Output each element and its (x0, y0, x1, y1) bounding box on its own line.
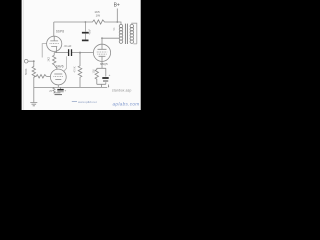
svg-text:.01uF: .01uF (63, 44, 71, 48)
svg-text:+: + (109, 73, 111, 77)
svg-text:5K: 5K (113, 27, 116, 30)
svg-text:40uF: 40uF (88, 28, 91, 34)
svg-text:470K: 470K (73, 66, 77, 72)
svg-text:6AV6: 6AV6 (56, 64, 64, 68)
svg-text:6BQ5: 6BQ5 (100, 62, 108, 66)
svg-text:stanbox.asp: stanbox.asp (112, 88, 131, 92)
svg-text:500K: 500K (24, 68, 28, 75)
svg-text:2K2: 2K2 (46, 56, 50, 61)
svg-text:66P8: 66P8 (56, 30, 64, 34)
svg-text:B+: B+ (114, 3, 120, 9)
svg-text:www.qdkb.net: www.qdkb.net (78, 100, 97, 104)
svg-text:1W: 1W (96, 14, 101, 18)
svg-text:150: 150 (91, 69, 95, 74)
svg-text:aplabs.com: aplabs.com (113, 101, 140, 107)
